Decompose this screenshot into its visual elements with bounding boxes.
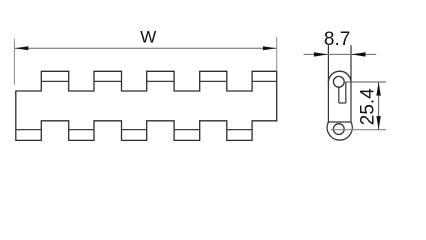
knuckle tangent line top 3 [147,80,174,82]
svg-text:W: W [140,27,156,46]
knuckle tangent line top 5 [252,80,277,82]
dimension W line [15,47,277,49]
belt module top view outline [16,71,277,140]
knuckle tangent line bottom 4 [174,129,200,131]
bottom hinge hole [333,124,344,135]
knuckle tangent line top 2 [94,80,122,82]
side view bottom chord [328,121,351,123]
side view top cap arc [328,71,351,82]
knuckle tangent line bottom 3 [122,129,147,131]
pin slot left edge [338,87,340,103]
side view right outer edge / extension line [350,45,352,122]
dimension 25.4 arrowhead top [376,82,380,96]
dimension W arrowhead right [263,46,276,50]
knuckle tangent line top 1 [41,80,68,82]
bottom hole centerline [331,129,386,131]
side view left outer edge / extension line [327,45,329,122]
dimension W arrowhead left [15,46,28,50]
top hole centerline [344,81,386,83]
knuckle tangent line bottom 5 [227,129,252,131]
svg-text:25.4: 25.4 [358,88,379,125]
dimension 8.7 arrowhead left [314,52,329,56]
dimension 25.4 line [378,82,380,130]
dimension W extension line right [276,37,278,71]
svg-text:8.7: 8.7 [324,29,350,50]
pin slot right edge [345,82,347,103]
dimension 8.7 line [304,53,377,55]
knuckle tangent line top 4 [200,80,227,82]
side view bottom eye arc [327,122,352,140]
knuckle tangent line bottom 1 [16,129,42,131]
top hinge hole [333,76,344,87]
dimension 8.7 arrowhead right [351,52,366,56]
dimension W extension line left [13,39,15,85]
pin slot bottom edge [339,102,346,104]
dimension 25.4 arrowhead bottom [376,116,380,130]
knuckle tangent line bottom 2 [69,129,94,131]
